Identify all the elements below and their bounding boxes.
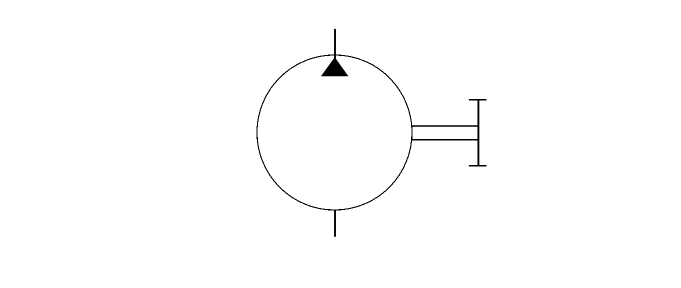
shaft top line bbox=[412, 125, 479, 127]
shaft end bottom cap bbox=[469, 165, 487, 167]
shaft bottom line bbox=[412, 139, 479, 141]
bottom port line bbox=[334, 210, 336, 237]
flow direction triangle bbox=[321, 57, 349, 76]
shaft end vertical line bbox=[477, 100, 479, 166]
shaft end top cap bbox=[469, 99, 487, 101]
top port line bbox=[334, 29, 336, 60]
pump body circle bbox=[257, 55, 412, 210]
